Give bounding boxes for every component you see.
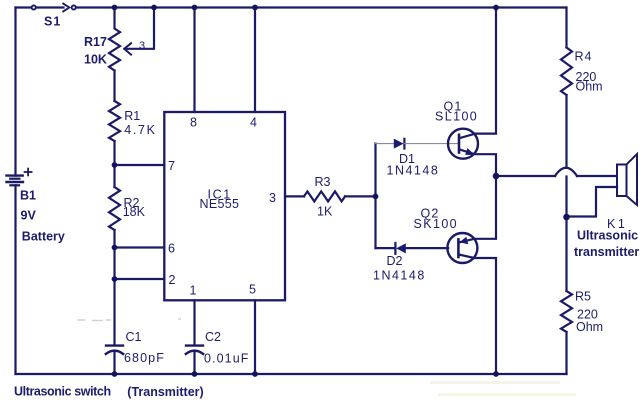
svg-text:18K: 18K xyxy=(123,205,146,219)
wire R5 to bottom rail xyxy=(565,332,567,374)
svg-text:Ohm: Ohm xyxy=(576,80,603,94)
resistor R1 body xyxy=(109,101,120,141)
svg-text:SL100: SL100 xyxy=(435,110,478,124)
wire C2 to bottom rail xyxy=(193,351,195,374)
transistor Q1 emitter lead xyxy=(460,150,496,177)
svg-text:B1: B1 xyxy=(20,189,36,203)
transistor Q2 base bar xyxy=(457,239,460,257)
diode D2 triangle xyxy=(396,243,406,253)
transistor Q1 collector lead xyxy=(460,8,496,139)
wire K1 lower terminal xyxy=(567,187,618,217)
resistor R4 body xyxy=(561,48,572,96)
svg-text:1N4148: 1N4148 xyxy=(373,269,426,283)
node bottom rail / pin 5 xyxy=(252,371,258,377)
diode D1 cathode bar xyxy=(403,139,405,149)
wire D1 to Q1 base (thin) xyxy=(404,143,457,145)
wire left rail lower (battery negative) xyxy=(14,185,16,374)
wire bottom rail xyxy=(16,373,567,375)
transistor Q2 emitter lead xyxy=(460,176,497,242)
battery B1 plate long top xyxy=(7,174,23,176)
svg-text:Ultrasonic: Ultrasonic xyxy=(577,229,638,243)
potentiometer R17 wiper arm xyxy=(127,8,155,49)
speaker K1 driver rectangle xyxy=(617,165,627,197)
svg-text:transmitter: transmitter xyxy=(574,245,639,259)
svg-text:D2: D2 xyxy=(387,254,403,268)
battery B1 plate long bottom xyxy=(7,181,24,183)
svg-text:Ultrasonic switch: Ultrasonic switch xyxy=(14,384,111,398)
transistor Q1 circle xyxy=(448,129,478,159)
svg-text:9V: 9V xyxy=(21,208,37,222)
transistor Q2 emitter arrow xyxy=(460,237,469,244)
svg-text:6: 6 xyxy=(168,242,175,256)
wire pin 8 to top rail xyxy=(193,8,195,113)
svg-text:R1: R1 xyxy=(124,109,140,123)
node top rail / wiper xyxy=(151,5,157,11)
node A (R3 / D1 / D2) xyxy=(373,194,379,200)
artifact dashes xyxy=(77,319,181,321)
node top rail / R17 xyxy=(112,5,118,11)
battery B1 plate short bottom xyxy=(10,184,19,186)
svg-text:1K: 1K xyxy=(317,205,333,219)
svg-text:3: 3 xyxy=(139,40,145,52)
wire hop over R4 rail xyxy=(555,168,577,176)
artifact streaks xyxy=(430,381,576,396)
IC U1 NE555 box xyxy=(164,112,285,300)
wire pin 7 xyxy=(115,164,165,166)
svg-text:5: 5 xyxy=(249,283,256,297)
node bottom rail / C1 xyxy=(112,371,118,377)
wire R2 to pin2 node xyxy=(113,230,115,279)
node output (Q1 emitter / Q2 emitter) xyxy=(493,173,500,180)
node pin 2 xyxy=(112,276,118,282)
wire pin 6 xyxy=(115,246,165,248)
wire pin2 node to C1 xyxy=(113,279,115,345)
wire K1 node to R5 xyxy=(565,217,567,291)
svg-text:4.7K: 4.7K xyxy=(124,123,157,137)
svg-text:Ohm: Ohm xyxy=(576,320,603,334)
node top rail / pin 4 xyxy=(252,5,258,11)
node K1 / R4 / R5 xyxy=(563,214,570,221)
speaker K1 cone xyxy=(627,154,638,205)
svg-text:7: 7 xyxy=(168,159,175,173)
svg-text:8: 8 xyxy=(190,116,197,130)
potentiometer R17 wiper arrowhead xyxy=(124,43,131,54)
wire output node to hop xyxy=(496,175,555,177)
switch S1 arrow xyxy=(63,4,69,12)
svg-text:2: 2 xyxy=(169,273,176,287)
battery B1 plus sign xyxy=(25,169,32,176)
wire pin 3 to R3 xyxy=(285,195,304,197)
wire D2 to Q2 base xyxy=(406,247,448,249)
svg-text:R17: R17 xyxy=(84,35,107,49)
svg-text:1N4148: 1N4148 xyxy=(387,163,440,177)
capacitor C2 curved plate xyxy=(186,351,203,354)
wire pin 1 to C2 xyxy=(193,300,195,345)
wire node A to diode D2 xyxy=(376,247,396,249)
resistor R3 body xyxy=(304,191,345,201)
svg-text:S1: S1 xyxy=(44,15,61,29)
svg-text:R4: R4 xyxy=(575,50,593,64)
svg-text:SK100: SK100 xyxy=(414,217,459,231)
battery B1 plate short xyxy=(10,178,19,180)
transistor Q2 collector lead xyxy=(459,255,496,375)
switch S1 left contact xyxy=(32,5,36,9)
capacitor C2 flat plate xyxy=(186,344,203,346)
svg-text:R5: R5 xyxy=(575,290,591,304)
wire pin 2 xyxy=(115,278,165,280)
transistor Q1 base bar xyxy=(458,135,461,153)
wire top rail left segment xyxy=(16,6,32,8)
svg-text:NE555: NE555 xyxy=(200,197,240,211)
node top rail / pin 8 xyxy=(192,5,198,11)
wire R1 to pin7 node xyxy=(113,141,115,187)
svg-text:0.01uF: 0.01uF xyxy=(204,352,250,366)
transistor Q1 emitter arrow xyxy=(465,148,475,155)
node top rail / Q1 collector xyxy=(493,5,499,11)
svg-text:1: 1 xyxy=(190,284,197,298)
diode D2 anode bar xyxy=(394,243,396,254)
svg-text:(Transmitter): (Transmitter) xyxy=(127,385,203,399)
switch S1 right contact xyxy=(72,5,76,9)
resistor R2 body xyxy=(109,187,120,230)
capacitor C1 curved plate xyxy=(106,351,123,354)
diode D1 triangle xyxy=(394,139,404,149)
node bottom rail / C2 xyxy=(192,371,198,377)
svg-text:R3: R3 xyxy=(315,175,331,189)
wire R4 top from rail xyxy=(565,8,567,48)
transistor Q2 circle xyxy=(447,233,477,263)
svg-text:4: 4 xyxy=(250,116,257,130)
wire pin 4 to top rail xyxy=(254,8,256,113)
wire hop to speaker xyxy=(577,175,617,177)
wire R17 to R1 xyxy=(113,71,115,102)
wire node A vertical (D1 to D2 branch) xyxy=(374,144,376,249)
svg-text:10K: 10K xyxy=(84,53,107,67)
resistor R5 body xyxy=(561,291,572,332)
svg-text:C2: C2 xyxy=(205,330,221,344)
node bottom rail / Q2 collector xyxy=(493,371,499,377)
svg-text:680pF: 680pF xyxy=(124,351,165,365)
wire C1 to bottom rail xyxy=(113,351,115,374)
svg-text:C1: C1 xyxy=(126,330,142,344)
node pin 7 xyxy=(112,162,118,168)
potentiometer R17 body xyxy=(109,8,120,71)
wire R4 bottom above hop xyxy=(565,95,567,168)
node pin 6 xyxy=(112,245,118,251)
wire pin 5 to bottom rail xyxy=(254,300,256,374)
wire S1 middle segment xyxy=(36,6,63,8)
wire R4 rail below hop to K1 node xyxy=(565,177,567,218)
svg-text:Battery: Battery xyxy=(22,229,65,243)
svg-text:3: 3 xyxy=(269,191,276,205)
wire R3 to node A xyxy=(345,195,376,197)
wire top rail main segment xyxy=(76,6,566,8)
capacitor C1 flat plate xyxy=(106,344,123,346)
wire left rail upper (battery positive) xyxy=(14,8,16,176)
wire node A to diode D1 (thin) xyxy=(376,143,395,145)
